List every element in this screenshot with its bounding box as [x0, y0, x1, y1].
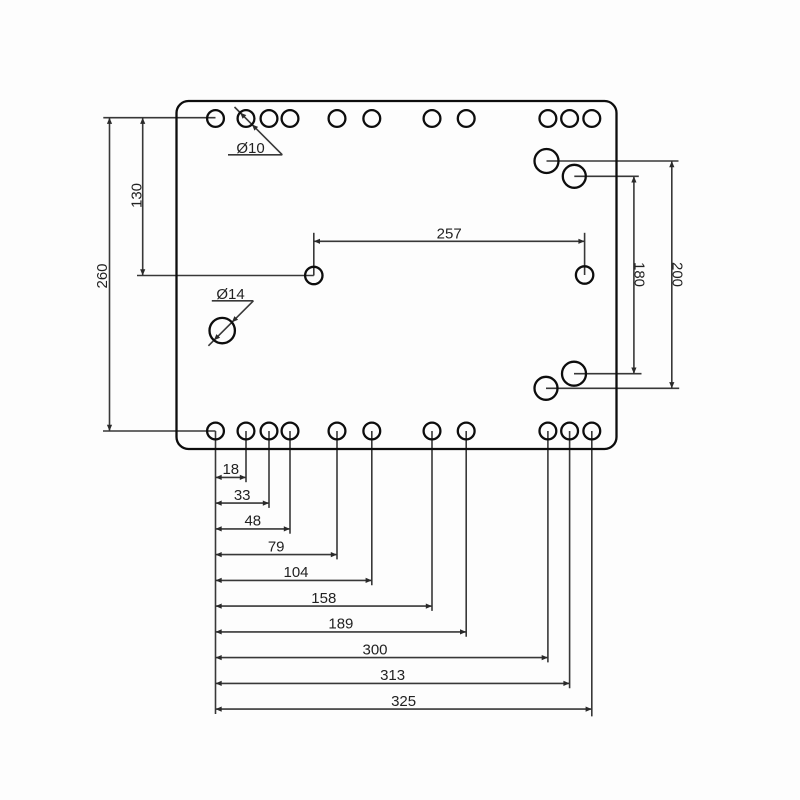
svg-text:189: 189 [328, 616, 353, 633]
svg-text:257: 257 [437, 226, 462, 243]
svg-text:180: 180 [631, 262, 648, 287]
svg-text:Ø10: Ø10 [236, 140, 264, 157]
svg-text:158: 158 [311, 590, 336, 607]
svg-text:300: 300 [362, 641, 387, 658]
svg-text:260: 260 [94, 263, 111, 288]
svg-text:104: 104 [283, 564, 308, 581]
svg-text:Ø14: Ø14 [216, 286, 244, 303]
svg-text:200: 200 [668, 262, 685, 287]
svg-text:79: 79 [268, 538, 285, 555]
svg-text:48: 48 [244, 513, 261, 530]
svg-text:18: 18 [222, 461, 239, 478]
svg-text:130: 130 [128, 183, 145, 208]
svg-text:313: 313 [380, 667, 405, 684]
svg-text:33: 33 [234, 487, 251, 504]
svg-text:325: 325 [391, 693, 416, 710]
